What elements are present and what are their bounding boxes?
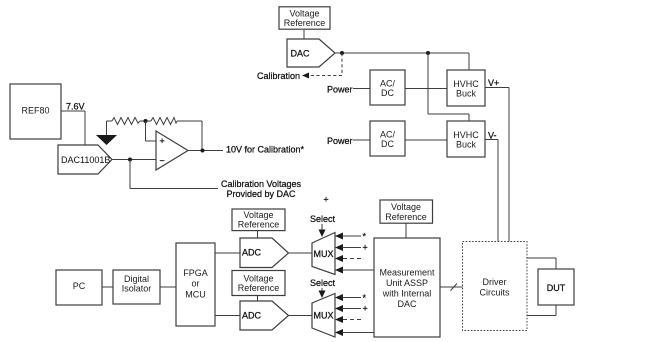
svg-text:Select: Select xyxy=(310,278,336,288)
svg-text:MUX: MUX xyxy=(314,311,334,321)
svg-text:Provided by DAC: Provided by DAC xyxy=(226,189,296,199)
svg-text:Buck: Buck xyxy=(456,89,477,99)
svg-text:DC: DC xyxy=(381,139,394,149)
svg-text:DAC: DAC xyxy=(291,49,311,59)
svg-text:*: * xyxy=(363,293,367,303)
svg-text:DAC: DAC xyxy=(397,299,417,309)
svg-text:MUX: MUX xyxy=(314,249,334,259)
svg-text:Voltage: Voltage xyxy=(289,8,319,18)
svg-text:DC: DC xyxy=(381,88,394,98)
svg-text:REF80: REF80 xyxy=(21,106,49,116)
svg-text:HVHC: HVHC xyxy=(453,130,479,140)
svg-text:+: + xyxy=(160,136,165,146)
svg-text:ADC: ADC xyxy=(242,311,262,321)
svg-text:AC/: AC/ xyxy=(380,130,396,140)
svg-text:Circuits: Circuits xyxy=(479,288,510,298)
svg-text:HVHC: HVHC xyxy=(453,79,479,89)
svg-text:Select: Select xyxy=(310,214,336,224)
svg-text:Reference: Reference xyxy=(385,212,427,222)
svg-text:Power: Power xyxy=(327,85,353,95)
svg-text:−: − xyxy=(160,156,165,166)
svg-text:Measurement: Measurement xyxy=(379,268,435,278)
svg-text:Buck: Buck xyxy=(456,140,477,150)
svg-text:Driver: Driver xyxy=(483,277,507,287)
svg-text:Power: Power xyxy=(327,136,353,146)
svg-text:+: + xyxy=(323,195,328,205)
svg-text:AC/: AC/ xyxy=(380,79,396,89)
svg-text:7.6V: 7.6V xyxy=(66,102,85,112)
svg-text:V+: V+ xyxy=(488,78,499,88)
svg-text:Calibration: Calibration xyxy=(257,71,300,81)
svg-text:or: or xyxy=(191,279,199,289)
svg-text:DAC11001B: DAC11001B xyxy=(61,155,110,165)
svg-text:Isolator: Isolator xyxy=(122,284,152,294)
svg-text:Reference: Reference xyxy=(238,220,280,230)
svg-text:Digital: Digital xyxy=(124,274,149,284)
svg-text:Reference: Reference xyxy=(284,18,326,28)
svg-text:MCU: MCU xyxy=(185,290,206,300)
svg-text:with Internal: with Internal xyxy=(382,289,432,299)
svg-text:10V for Calibration*: 10V for Calibration* xyxy=(226,145,305,155)
svg-text:ADC: ADC xyxy=(242,248,262,258)
svg-text:+: + xyxy=(363,304,368,314)
svg-text:Voltage: Voltage xyxy=(243,274,273,284)
svg-text:Voltage: Voltage xyxy=(391,202,421,212)
svg-text:FPGA: FPGA xyxy=(183,268,208,278)
svg-text:+: + xyxy=(363,243,368,253)
svg-text:DUT: DUT xyxy=(547,283,566,293)
svg-text:Unit ASSP: Unit ASSP xyxy=(386,278,428,288)
svg-text:*: * xyxy=(363,232,367,242)
svg-text:Voltage: Voltage xyxy=(243,210,273,220)
svg-text:PC: PC xyxy=(73,281,86,291)
svg-text:Reference: Reference xyxy=(238,283,280,293)
svg-text:Calibration Voltages: Calibration Voltages xyxy=(221,179,302,189)
